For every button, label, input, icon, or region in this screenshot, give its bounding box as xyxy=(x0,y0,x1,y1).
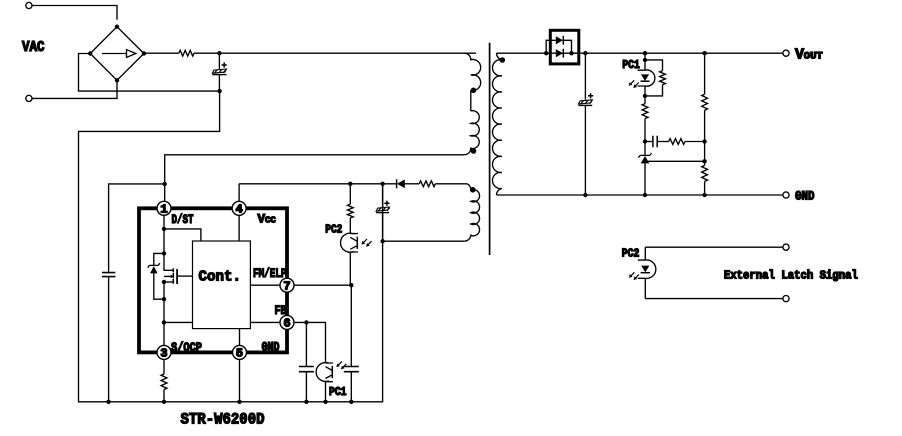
wire pin 7 to PC2/cap node xyxy=(294,284,351,286)
wire PC2 emitter to pin 7 line xyxy=(349,252,351,285)
pin 6 xyxy=(280,315,294,329)
zener avalanche diode internal xyxy=(154,253,164,265)
node Vcc cap branch xyxy=(380,182,384,186)
node zener ground xyxy=(643,193,647,197)
node primary bottom dot xyxy=(471,148,477,154)
pin 1 xyxy=(157,201,171,215)
svg-text:7: 7 xyxy=(283,279,290,293)
svg-text:VAC: VAC xyxy=(22,40,45,56)
opto transistor PC2 xyxy=(341,233,354,252)
node MOSFET source xyxy=(162,280,166,284)
transformer primary winding upper xyxy=(464,53,480,90)
wire zener ref to divider xyxy=(647,160,705,162)
wire bottom terminal to bridge bottom xyxy=(32,81,117,99)
svg-text:3: 3 xyxy=(160,347,167,361)
svg-text:PC1: PC1 xyxy=(329,386,347,399)
svg-text:PC2: PC2 xyxy=(325,224,342,237)
resistor input fusible xyxy=(179,50,194,56)
terminal GND xyxy=(783,192,789,198)
wire pin 5 to ground rail xyxy=(239,359,241,401)
wire pin1 drain internal xyxy=(164,215,173,270)
node divider top xyxy=(702,51,706,55)
capacitor FB filter xyxy=(305,322,307,366)
node rectifier anode link xyxy=(544,51,548,55)
diode Vcc rectifier xyxy=(396,179,398,188)
node D/ST snubber tap xyxy=(163,182,167,186)
svg-text:FM/ELP: FM/ELP xyxy=(253,267,287,281)
wire snubber cap to ground rail xyxy=(108,277,110,402)
node PC1 parallel top xyxy=(643,58,647,62)
node zener return xyxy=(162,297,166,301)
svg-text:6: 6 xyxy=(283,317,290,331)
op-amp U1 STR-W6200D outline xyxy=(139,208,287,352)
node bridge left vertex xyxy=(88,51,92,55)
terminal VAC bottom xyxy=(26,95,32,101)
svg-text:D/ST: D/ST xyxy=(172,213,194,227)
wire PC1 emitter to ground rail xyxy=(325,382,327,402)
wire top terminal to bridge top xyxy=(32,6,117,20)
wire OCP sense to Cont xyxy=(164,321,193,323)
node primary tap dot upper xyxy=(471,88,477,94)
svg-text:PC1: PC1 xyxy=(622,59,640,72)
svg-text:STR-W6200D: STR-W6200D xyxy=(181,411,265,429)
node output cap tap xyxy=(583,51,587,55)
node snubber ground xyxy=(106,400,110,404)
wire latch bottom xyxy=(645,298,783,300)
svg-text:OUT: OUT xyxy=(804,50,823,62)
capacitor phase comp xyxy=(645,141,653,143)
wire resistor to aux winding top xyxy=(435,183,467,185)
bridge arrow xyxy=(102,53,126,55)
node rectifier cathode link xyxy=(569,51,573,55)
transformer aux winding xyxy=(464,184,479,241)
wire primary negative rail with jog xyxy=(79,54,383,402)
node bridge bottom vertex xyxy=(115,78,119,82)
resistor divider lower xyxy=(702,165,708,181)
resistor divider upper xyxy=(702,94,708,110)
node bridge right vertex xyxy=(142,51,146,55)
wire Vcc to PC2 resistor xyxy=(349,184,351,204)
wire primary section link xyxy=(470,90,472,111)
transformer primary winding lower xyxy=(464,111,479,155)
node bulk cap top xyxy=(217,51,221,55)
node FB cap tap xyxy=(304,320,308,324)
wire resistor to PC2 transistor xyxy=(349,218,351,234)
wire source to pin 3 xyxy=(163,282,165,345)
svg-text:S/OCP: S/OCP xyxy=(171,341,202,355)
node OCP sense tap xyxy=(162,320,166,324)
wire aux winding bottom return xyxy=(383,240,465,242)
wire Cont to pin 6 xyxy=(250,321,280,323)
wire pin 6 to PC1 xyxy=(294,322,326,363)
node secondary winding dot xyxy=(500,57,506,63)
diode lower xyxy=(556,49,563,57)
capacitor output electrolytic xyxy=(584,53,586,99)
capacitor FM/ELP filter xyxy=(350,285,352,366)
node zener tap on drain xyxy=(162,251,166,255)
transformer core xyxy=(489,43,491,255)
svg-text:GND: GND xyxy=(795,189,815,204)
svg-text:1: 1 xyxy=(160,203,167,217)
wire bridge right vertex to resistor xyxy=(144,52,179,54)
pin 5 xyxy=(233,345,247,359)
wire secondary top to Vout xyxy=(497,52,783,54)
resistor phase comp xyxy=(669,139,685,145)
node PC1 parallel bottom xyxy=(643,94,647,98)
capacitor bulk electrolytic xyxy=(212,69,226,73)
node pin7 filter xyxy=(349,283,353,287)
wire secondary ground rail xyxy=(497,194,783,196)
pin 3 xyxy=(157,345,171,359)
svg-text:4: 4 xyxy=(235,203,242,217)
svg-text:GND: GND xyxy=(262,341,280,355)
resistor PC2 collector xyxy=(347,204,353,218)
svg-text:FB: FB xyxy=(275,304,287,318)
svg-text:5: 5 xyxy=(236,347,243,361)
node feedback xyxy=(643,139,647,143)
bridge rectifier diamond xyxy=(90,27,144,81)
wire bulk cap bottom lead xyxy=(218,75,220,92)
node bulk cap bottom xyxy=(217,89,221,93)
wire pin 4 Vcc to aux winding xyxy=(239,184,396,202)
node PC1 branch top xyxy=(643,51,647,55)
terminal latch top xyxy=(783,244,789,250)
terminal Vout xyxy=(783,50,789,56)
zener shunt regulator xyxy=(644,142,646,156)
node divider comp tap xyxy=(702,139,706,143)
wire bulk cap top lead xyxy=(218,53,220,69)
svg-text:Cont.: Cont. xyxy=(199,269,242,286)
transistor Q1 power MOSFET xyxy=(172,268,174,283)
resistor Vcc series xyxy=(419,181,435,187)
pin 4 xyxy=(232,201,246,215)
svg-text:CC: CC xyxy=(265,216,276,226)
node PC2 branch on Vcc line xyxy=(348,182,352,186)
node bridge top vertex xyxy=(115,25,119,29)
node drain startup tap xyxy=(162,227,166,231)
wire resistor to bulk cap node and transformer primary top xyxy=(194,52,476,54)
resistor parallel PC1 xyxy=(645,60,663,71)
svg-text:V: V xyxy=(795,46,804,63)
wire Cont to pin 7 xyxy=(250,284,280,286)
opto transistor PC1 xyxy=(316,363,329,382)
wire Vcc cap to ground rail xyxy=(382,213,384,242)
diode dual rectifier box xyxy=(550,30,579,64)
svg-text:External Latch Signal: External Latch Signal xyxy=(724,270,858,283)
terminal latch bottom xyxy=(783,296,789,302)
wire latch top xyxy=(645,246,783,248)
wire pin 4 into Cont xyxy=(238,215,240,241)
wire Cont to pin 5 xyxy=(239,329,241,346)
terminal VAC top xyxy=(26,2,32,8)
wire snubber branch xyxy=(109,184,165,273)
Cont. block xyxy=(193,241,251,329)
resistor PC1 series xyxy=(644,96,646,104)
wire primary winding bottom to pin 1 D/ST xyxy=(165,155,465,202)
node output cap ground xyxy=(583,193,587,197)
wire startup tap to Cont xyxy=(164,229,201,241)
node aux winding dot xyxy=(470,187,476,193)
node divider ref tap xyxy=(702,159,706,163)
resistor S/OCP xyxy=(163,359,165,374)
capacitor Vcc electrolytic xyxy=(382,184,384,207)
wire upper diode branch xyxy=(546,40,556,53)
opto LED PC1 xyxy=(638,70,646,86)
svg-text:PC2: PC2 xyxy=(622,248,640,261)
transformer secondary winding xyxy=(492,53,501,195)
diode upper xyxy=(556,36,563,44)
capacitor drain snubber xyxy=(102,273,116,277)
pin 7 xyxy=(280,278,294,292)
node aux winding return xyxy=(380,239,384,243)
